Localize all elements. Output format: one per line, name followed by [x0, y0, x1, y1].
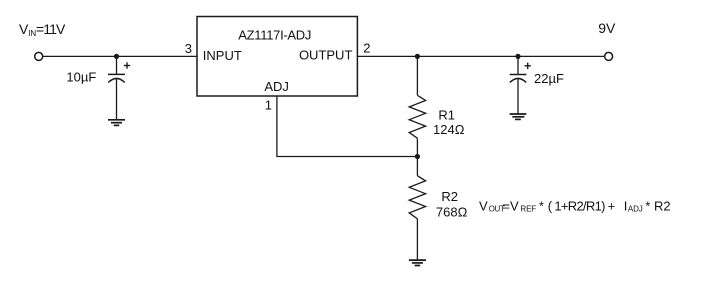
svg-text:ADJ: ADJ: [628, 205, 643, 214]
svg-text:2: 2: [363, 41, 370, 56]
svg-text:9V: 9V: [598, 20, 616, 36]
svg-text:INPUT: INPUT: [203, 48, 242, 63]
svg-text:124Ω: 124Ω: [433, 122, 465, 137]
svg-text:VIN=11V: VIN=11V: [19, 21, 66, 38]
svg-text:=V: =V: [502, 198, 519, 213]
svg-text:OUTPUT: OUTPUT: [299, 48, 353, 63]
svg-text:ADJ: ADJ: [264, 79, 289, 94]
svg-text:V: V: [479, 198, 488, 213]
svg-text:( 1+R2/R1) +: ( 1+R2/R1) +: [548, 198, 615, 213]
svg-text:AZ1117I-ADJ: AZ1117I-ADJ: [238, 28, 311, 43]
svg-text:R2: R2: [441, 189, 458, 204]
svg-text:R1: R1: [438, 108, 455, 123]
svg-text:10µF: 10µF: [66, 70, 96, 85]
svg-text:* R2: * R2: [645, 198, 670, 213]
svg-text:22µF: 22µF: [534, 71, 564, 86]
svg-text:768Ω: 768Ω: [436, 205, 468, 220]
svg-text:1: 1: [265, 98, 272, 113]
svg-text:*: *: [539, 198, 544, 213]
svg-text:REF: REF: [520, 205, 536, 214]
svg-text:I: I: [624, 198, 628, 213]
svg-text:3: 3: [185, 41, 192, 56]
